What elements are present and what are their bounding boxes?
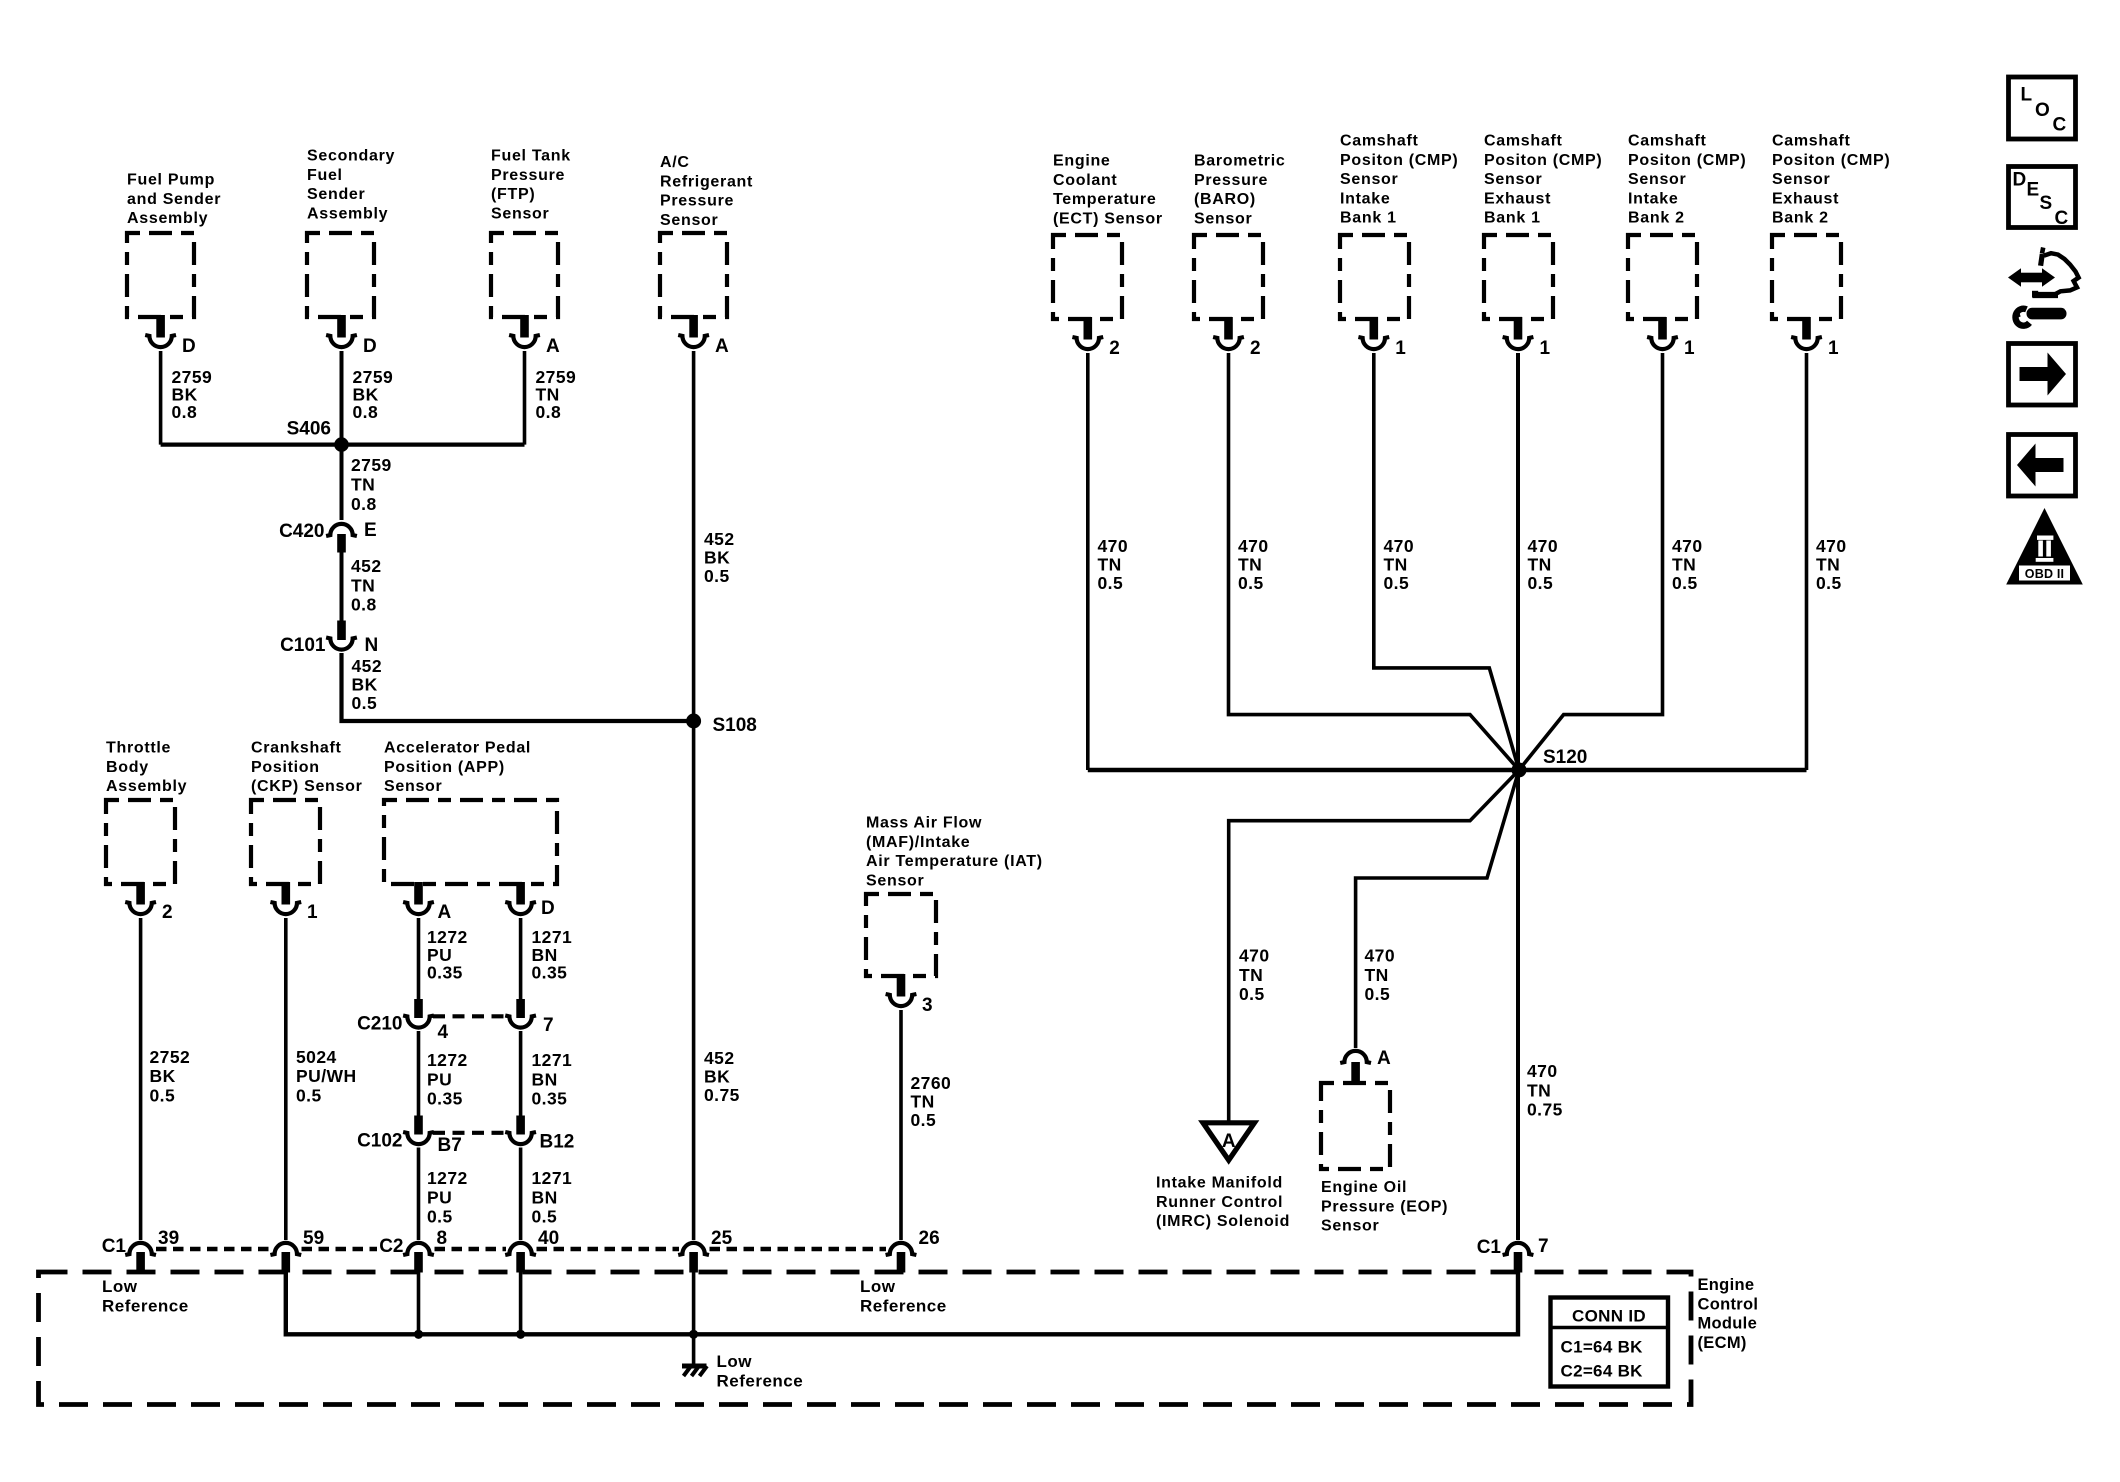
- svg-text:BK: BK: [704, 1067, 730, 1087]
- ECM connector pin 25: [678, 1228, 732, 1273]
- svg-text:C: C: [2055, 208, 2069, 229]
- svg-text:1: 1: [1828, 338, 1839, 359]
- svg-text:1: 1: [1395, 338, 1406, 359]
- svg-text:Intake: Intake: [1628, 190, 1678, 207]
- ECM connector pin 8: [403, 1228, 447, 1273]
- svg-text:A: A: [438, 902, 452, 923]
- svg-text:452: 452: [352, 656, 383, 676]
- junction dot pin 40 bus: [516, 1330, 525, 1339]
- svg-text:0.5: 0.5: [532, 1207, 558, 1227]
- wire 470 TN 0.5 from S120 to EOP Sensor: [1356, 770, 1519, 1048]
- dashed harness line of ECM connectors C1/C2: [156, 1247, 272, 1251]
- svg-text:3: 3: [922, 995, 933, 1016]
- svg-text:Camshaft: Camshaft: [1772, 133, 1851, 150]
- svg-text:0.35: 0.35: [427, 1089, 463, 1109]
- svg-text:Fuel Tank: Fuel Tank: [491, 148, 571, 165]
- svg-text:Accelerator Pedal: Accelerator Pedal: [384, 740, 531, 757]
- connector pin A of FTP Sensor: [509, 315, 560, 357]
- wire 452 BK 0.5 from C101 to S108: [342, 653, 694, 721]
- svg-text:BK: BK: [352, 675, 378, 695]
- in-line connector C420 pin E: [279, 520, 377, 553]
- svg-text:D: D: [363, 336, 377, 357]
- icon LOC box: [2009, 77, 2076, 139]
- in-line connector C102 pin B7: [357, 1116, 462, 1157]
- svg-text:TN: TN: [1238, 555, 1262, 575]
- svg-text:Assembly: Assembly: [127, 210, 208, 227]
- svg-text:470: 470: [1365, 946, 1396, 966]
- svg-text:Sensor: Sensor: [660, 212, 718, 229]
- icon forward arrow box: [2009, 344, 2076, 406]
- component CMP Sensor Exhaust Bank 2: [1772, 133, 1890, 320]
- svg-text:470: 470: [1528, 536, 1559, 556]
- svg-text:2752: 2752: [150, 1047, 191, 1067]
- svg-text:Refrigerant: Refrigerant: [660, 173, 753, 190]
- component Fuel Tank Pressure (FTP) Sensor: [491, 148, 571, 318]
- ECM internal low reference bus wire: [286, 1262, 1518, 1334]
- svg-text:TN: TN: [351, 575, 375, 595]
- svg-text:Assembly: Assembly: [307, 205, 388, 222]
- svg-text:Sensor: Sensor: [1628, 171, 1686, 188]
- svg-text:B7: B7: [438, 1135, 462, 1156]
- svg-text:A: A: [1222, 1131, 1236, 1152]
- svg-text:0.8: 0.8: [536, 402, 562, 422]
- svg-text:470: 470: [1672, 536, 1703, 556]
- component Crankshaft Position (CKP) Sensor: [251, 740, 363, 885]
- svg-text:Intake: Intake: [1340, 190, 1390, 207]
- svg-text:Camshaft: Camshaft: [1628, 133, 1707, 150]
- svg-text:Body: Body: [106, 759, 149, 776]
- svg-text:0.8: 0.8: [351, 595, 377, 615]
- svg-text:Fuel: Fuel: [307, 167, 343, 184]
- svg-text:0.5: 0.5: [704, 566, 730, 586]
- svg-text:Air Temperature (IAT): Air Temperature (IAT): [866, 853, 1043, 870]
- svg-text:5024: 5024: [296, 1047, 337, 1067]
- wire 1271 BN 0.35 from C210 to C102: [521, 1031, 573, 1117]
- wire 1271 BN 0.5 from C102 to ECM pin 40: [521, 1148, 573, 1241]
- wire 2759 BK 0.8 from Fuel Pump pin D to splice S406: [161, 351, 213, 445]
- svg-text:Sensor: Sensor: [866, 872, 924, 889]
- svg-text:C210: C210: [357, 1014, 402, 1035]
- junction dot pin 8 bus: [414, 1330, 423, 1339]
- wire 452 BK 0.75 from S108 to ECM pin 25: [694, 721, 740, 1240]
- svg-text:2: 2: [1250, 338, 1261, 359]
- wire 2760 TN 0.5 from MAF/IAT Sensor to ECM pin 26: [901, 1010, 951, 1240]
- svg-text:Pressure: Pressure: [660, 193, 734, 210]
- in-line connector C101 pin N: [280, 621, 378, 657]
- svg-text:39: 39: [158, 1228, 179, 1249]
- wire 470 TN 0.5 from CMP Exhaust Bank 1 down through splice S120: [1518, 353, 1558, 770]
- svg-text:0.5: 0.5: [911, 1110, 937, 1130]
- svg-text:Camshaft: Camshaft: [1340, 133, 1419, 150]
- svg-text:C1: C1: [1477, 1237, 1502, 1258]
- svg-text:2760: 2760: [911, 1073, 952, 1093]
- svg-text:1: 1: [307, 902, 318, 923]
- svg-text:(ECM): (ECM): [1698, 1334, 1747, 1352]
- connector pin 3 of MAF/IAT Sensor: [886, 974, 933, 1016]
- svg-text:Sensor: Sensor: [1194, 210, 1252, 227]
- svg-text:L: L: [2021, 85, 2033, 106]
- wire 470 TN 0.75 from S120 to ECM pin 7: [1518, 770, 1563, 1240]
- svg-text:0.5: 0.5: [296, 1085, 322, 1105]
- junction dot pin 25 bus: [689, 1330, 698, 1339]
- svg-text:Exhaust: Exhaust: [1484, 190, 1551, 207]
- connector pin 1 of CMP Sensor Exhaust Bank 2: [1791, 317, 1839, 359]
- splice S108: [686, 714, 757, 737]
- component CMP Sensor Intake Bank 1: [1340, 133, 1458, 320]
- svg-text:TN: TN: [1098, 555, 1122, 575]
- connector pin 1 of CMP Sensor Exhaust Bank 1: [1503, 317, 1551, 359]
- connector pin D of Secondary Fuel Sender Assembly: [326, 315, 377, 357]
- connector pin 1 of CMP Sensor Intake Bank 1: [1358, 317, 1406, 359]
- svg-text:Low: Low: [860, 1277, 896, 1296]
- icon vehicle with double arrow and wrench: [2008, 248, 2079, 326]
- connector pin 1 of CKP Sensor: [270, 882, 318, 923]
- ECM connector pin 39: [125, 1228, 179, 1273]
- svg-text:E: E: [364, 520, 377, 541]
- svg-text:0.5: 0.5: [427, 1207, 453, 1227]
- wire 1272 PU 0.35 from C210 to C102: [419, 1031, 468, 1117]
- svg-text:TN: TN: [1527, 1080, 1551, 1100]
- svg-text:Pressure: Pressure: [1194, 172, 1268, 189]
- svg-text:0.5: 0.5: [352, 693, 378, 713]
- component Engine Oil Pressure (EOP) Sensor: [1321, 1048, 1448, 1235]
- component CMP Sensor Exhaust Bank 1: [1484, 133, 1602, 320]
- svg-text:2: 2: [1109, 338, 1120, 359]
- ECM label: [1698, 1276, 1759, 1352]
- wire from ECM pin 40 to internal bus: [519, 1262, 523, 1334]
- svg-text:470: 470: [1238, 536, 1269, 556]
- svg-text:Barometric: Barometric: [1194, 153, 1285, 170]
- svg-text:TN: TN: [1365, 965, 1389, 985]
- wire 452 BK 0.5 from A/C sensor down to splice S108: [694, 351, 735, 721]
- svg-text:Low: Low: [102, 1277, 138, 1296]
- svg-text:Sensor: Sensor: [1340, 171, 1398, 188]
- svg-text:Position (APP): Position (APP): [384, 759, 505, 776]
- svg-text:A: A: [715, 336, 729, 357]
- svg-text:C102: C102: [357, 1131, 402, 1152]
- svg-text:Temperature: Temperature: [1053, 191, 1156, 208]
- svg-text:C420: C420: [279, 521, 324, 542]
- svg-text:470: 470: [1239, 946, 1270, 966]
- svg-text:Assembly: Assembly: [106, 778, 187, 795]
- svg-text:A: A: [546, 336, 560, 357]
- wire 2759 BK 0.8 from Secondary Fuel Sender to splice S406: [342, 351, 394, 445]
- svg-text:C101: C101: [280, 635, 326, 656]
- svg-text:Intake Manifold: Intake Manifold: [1156, 1175, 1283, 1192]
- svg-text:0.35: 0.35: [427, 963, 463, 983]
- svg-text:S120: S120: [1543, 747, 1587, 768]
- svg-text:0.5: 0.5: [1098, 573, 1124, 593]
- svg-text:0.5: 0.5: [1816, 573, 1842, 593]
- ECM connector pin 40: [505, 1228, 559, 1273]
- svg-text:Sensor: Sensor: [1484, 171, 1542, 188]
- svg-text:Sensor: Sensor: [491, 205, 549, 222]
- svg-text:Throttle: Throttle: [106, 740, 171, 757]
- wire 2752 BK 0.5 from Throttle Body to ECM pin 39: [141, 918, 191, 1240]
- ECM internal label Low Reference (pin 39): [102, 1277, 189, 1315]
- svg-text:0.5: 0.5: [1239, 984, 1265, 1004]
- wire 470 TN 0.5 from BARO Sensor to splice S120: [1229, 353, 1520, 770]
- svg-text:Reference: Reference: [717, 1371, 804, 1390]
- svg-text:(FTP): (FTP): [491, 186, 535, 203]
- icon OBD II triangle: [2006, 508, 2083, 585]
- svg-text:7: 7: [1538, 1236, 1549, 1257]
- svg-text:Bank 2: Bank 2: [1772, 210, 1829, 227]
- icon DESC box: [2009, 167, 2076, 230]
- svg-text:452: 452: [704, 1048, 735, 1068]
- svg-text:C: C: [2053, 115, 2067, 136]
- in-line connector C210 pin 7: [505, 999, 553, 1036]
- Engine Control Module (ECM) dashed box: [39, 1272, 1692, 1405]
- svg-text:OBD II: OBD II: [2025, 567, 2064, 581]
- svg-text:0.8: 0.8: [351, 494, 377, 514]
- svg-text:0.8: 0.8: [172, 402, 198, 422]
- svg-text:PU: PU: [427, 1069, 452, 1089]
- svg-text:Pressure: Pressure: [491, 167, 565, 184]
- svg-text:A/C: A/C: [660, 154, 690, 171]
- horizontal bus wire into splice S120: [1088, 768, 1807, 772]
- svg-text:BN: BN: [532, 1187, 558, 1207]
- svg-text:BK: BK: [150, 1066, 176, 1086]
- svg-text:Engine: Engine: [1053, 153, 1111, 170]
- svg-text:B12: B12: [540, 1132, 575, 1153]
- svg-text:S: S: [2040, 193, 2053, 214]
- svg-text:1: 1: [1540, 338, 1551, 359]
- connector pin 2 of Throttle Body Assembly: [125, 882, 172, 923]
- svg-text:0.35: 0.35: [532, 1089, 568, 1109]
- dashed harness line of connector C210: [433, 1014, 507, 1018]
- svg-text:452: 452: [704, 529, 735, 549]
- svg-text:Reference: Reference: [102, 1296, 189, 1315]
- svg-text:0.5: 0.5: [1238, 573, 1264, 593]
- svg-text:(CKP) Sensor: (CKP) Sensor: [251, 778, 363, 795]
- wire 1272 PU 0.35 from APP pin A to C210 pin 4: [419, 918, 468, 1000]
- svg-text:1272: 1272: [427, 1168, 468, 1188]
- svg-text:7: 7: [543, 1015, 554, 1036]
- svg-text:0.75: 0.75: [704, 1085, 740, 1105]
- svg-text:0.75: 0.75: [1527, 1100, 1563, 1120]
- svg-text:C1: C1: [102, 1236, 127, 1257]
- connector pin 1 of CMP Sensor Intake Bank 2: [1647, 317, 1695, 359]
- wire 2759 TN 0.8 from S406 to C420: [342, 445, 392, 520]
- svg-text:Secondary: Secondary: [307, 148, 395, 165]
- svg-text:(BARO): (BARO): [1194, 191, 1256, 208]
- svg-text:TN: TN: [1528, 555, 1552, 575]
- svg-text:0.5: 0.5: [1365, 984, 1391, 1004]
- CONN ID table: [1551, 1298, 1669, 1387]
- ECM connector pin 7: [1503, 1236, 1549, 1273]
- svg-text:470: 470: [1384, 536, 1415, 556]
- component Mass Air Flow (MAF)/Intake Air Temperature (IAT) Sensor: [866, 815, 1043, 977]
- svg-text:Crankshaft: Crankshaft: [251, 740, 342, 757]
- in-line connector C210 pin 4: [357, 999, 448, 1043]
- connector pin 2 of BARO Sensor: [1213, 317, 1260, 359]
- svg-text:C2=64 BK: C2=64 BK: [1561, 1362, 1644, 1381]
- ECM internal label Low Reference (pin 26): [860, 1277, 947, 1315]
- svg-text:470: 470: [1098, 536, 1129, 556]
- svg-text:O: O: [2035, 100, 2050, 121]
- svg-text:Pressure (EOP): Pressure (EOP): [1321, 1198, 1448, 1215]
- svg-text:0.5: 0.5: [150, 1085, 176, 1105]
- svg-text:1272: 1272: [427, 1050, 468, 1070]
- svg-text:Sender: Sender: [307, 186, 365, 203]
- svg-text:D: D: [2013, 170, 2027, 191]
- svg-text:TN: TN: [1816, 555, 1840, 575]
- connector pin 2 of ECT Sensor: [1072, 317, 1119, 359]
- component BARO Sensor: [1194, 153, 1285, 320]
- component ECT Sensor: [1053, 153, 1163, 320]
- svg-text:N: N: [365, 635, 379, 656]
- ECM connector pin 26: [886, 1228, 940, 1273]
- svg-text:0.8: 0.8: [353, 402, 379, 422]
- device Intake Manifold Runner Control (IMRC) Solenoid (triangle with A): [1156, 1123, 1290, 1230]
- svg-text:0.5: 0.5: [1384, 573, 1410, 593]
- svg-text:2759: 2759: [351, 455, 392, 475]
- svg-text:Positon (CMP): Positon (CMP): [1484, 152, 1602, 169]
- svg-text:0.5: 0.5: [1672, 573, 1698, 593]
- connector pin D of APP Sensor: [505, 882, 555, 919]
- component Throttle Body Assembly: [106, 740, 187, 885]
- svg-text:A: A: [1377, 1048, 1391, 1069]
- svg-text:C2: C2: [379, 1236, 403, 1257]
- svg-text:TN: TN: [1384, 555, 1408, 575]
- svg-text:E: E: [2027, 180, 2040, 201]
- in-line connector C102 pin B12: [505, 1116, 574, 1153]
- svg-text:26: 26: [919, 1228, 940, 1249]
- svg-text:Positon (CMP): Positon (CMP): [1628, 152, 1746, 169]
- connector pin A of A/C Refrigerant Pressure Sensor: [678, 315, 729, 357]
- wire 1271 BN 0.35 from APP pin D to C210 pin 7: [521, 918, 573, 1000]
- wire 452 TN 0.8 from C420 to C101: [342, 550, 382, 621]
- dashed harness line of connector C102: [433, 1131, 507, 1135]
- icon back arrow box: [2009, 435, 2076, 497]
- svg-text:Sensor: Sensor: [1321, 1218, 1379, 1235]
- component Fuel Pump and Sender Assembly (dashed box + label): [127, 172, 221, 318]
- svg-text:Positon (CMP): Positon (CMP): [1772, 152, 1890, 169]
- connector pin A of APP Sensor: [403, 882, 451, 923]
- wire 470 TN 0.5 from ECT Sensor to splice S120: [1088, 353, 1128, 770]
- svg-text:TN: TN: [1239, 965, 1263, 985]
- svg-text:Sensor: Sensor: [1772, 171, 1830, 188]
- svg-text:BK: BK: [704, 548, 730, 568]
- svg-text:Low: Low: [717, 1352, 753, 1371]
- svg-text:59: 59: [303, 1228, 324, 1249]
- svg-text:2: 2: [162, 902, 173, 923]
- svg-text:Mass Air Flow: Mass Air Flow: [866, 815, 982, 832]
- svg-text:S406: S406: [287, 419, 331, 440]
- svg-text:470: 470: [1527, 1061, 1558, 1081]
- svg-text:1271: 1271: [532, 1168, 573, 1188]
- svg-text:(IMRC) Solenoid: (IMRC) Solenoid: [1156, 1213, 1290, 1230]
- component Accelerator Pedal Position (APP) Sensor: [384, 740, 557, 885]
- wire from ECM pin 8 to internal bus: [417, 1262, 421, 1334]
- svg-text:Exhaust: Exhaust: [1772, 190, 1839, 207]
- svg-text:Positon (CMP): Positon (CMP): [1340, 152, 1458, 169]
- wire 470 TN 0.5 from S120 to IMRC Solenoid: [1229, 770, 1519, 1121]
- svg-text:Sensor: Sensor: [384, 778, 442, 795]
- svg-text:Bank 1: Bank 1: [1340, 210, 1397, 227]
- svg-text:Reference: Reference: [860, 1296, 947, 1315]
- svg-text:(ECT) Sensor: (ECT) Sensor: [1053, 210, 1163, 227]
- svg-text:Runner Control: Runner Control: [1156, 1194, 1283, 1211]
- splice S120: [1512, 747, 1588, 778]
- svg-text:470: 470: [1816, 536, 1847, 556]
- svg-text:40: 40: [538, 1228, 559, 1249]
- ECM connector pin 59: [270, 1228, 324, 1273]
- svg-text:D: D: [541, 898, 555, 919]
- svg-text:Engine Oil: Engine Oil: [1321, 1179, 1407, 1196]
- svg-text:(MAF)/Intake: (MAF)/Intake: [866, 834, 970, 851]
- svg-text:S108: S108: [713, 715, 757, 736]
- svg-text:Bank 1: Bank 1: [1484, 210, 1541, 227]
- ground symbol Low Reference inside ECM: [682, 1352, 803, 1390]
- wire 470 TN 0.5 from CMP Exhaust Bank 2 to splice S120: [1807, 353, 1847, 770]
- svg-text:4: 4: [438, 1022, 449, 1043]
- svg-text:D: D: [182, 336, 196, 357]
- splice S406: [161, 419, 525, 452]
- svg-text:Position: Position: [251, 759, 320, 776]
- component A/C Refrigerant Pressure Sensor: [660, 154, 753, 317]
- component Secondary Fuel Sender Assembly: [307, 148, 395, 318]
- svg-text:TN: TN: [1672, 555, 1696, 575]
- svg-text:Camshaft: Camshaft: [1484, 133, 1563, 150]
- svg-text:452: 452: [351, 556, 382, 576]
- wire 5024 PU/WH 0.5 from CKP Sensor to ECM pin 59: [286, 918, 357, 1240]
- wire 470 TN 0.5 from CMP Intake Bank 1 to splice S120: [1374, 353, 1519, 770]
- wire 1272 PU 0.5 from C102 to ECM pin 8: [419, 1148, 468, 1241]
- svg-text:and Sender: and Sender: [127, 191, 221, 208]
- svg-text:Module: Module: [1698, 1315, 1758, 1333]
- wire from ECM pin 25 to internal ground: [692, 1262, 696, 1365]
- svg-text:Coolant: Coolant: [1053, 172, 1117, 189]
- svg-text:Fuel Pump: Fuel Pump: [127, 172, 215, 189]
- svg-text:0.35: 0.35: [532, 963, 568, 983]
- component CMP Sensor Intake Bank 2: [1628, 133, 1746, 320]
- svg-text:PU: PU: [427, 1187, 452, 1207]
- svg-text:TN: TN: [911, 1092, 935, 1112]
- svg-text:8: 8: [437, 1228, 448, 1249]
- svg-text:TN: TN: [351, 474, 375, 494]
- svg-text:PU/WH: PU/WH: [296, 1066, 357, 1086]
- svg-text:25: 25: [711, 1228, 733, 1249]
- svg-text:1: 1: [1684, 338, 1695, 359]
- svg-text:1271: 1271: [532, 1050, 573, 1070]
- svg-text:Control: Control: [1698, 1295, 1759, 1313]
- connector pin D of Fuel Pump and Sender Assembly: [145, 315, 196, 357]
- svg-text:Bank 2: Bank 2: [1628, 210, 1685, 227]
- wire 2759 TN 0.8 from FTP Sensor to splice S406: [525, 351, 577, 445]
- svg-text:Engine: Engine: [1698, 1276, 1755, 1294]
- svg-text:C1=64 BK: C1=64 BK: [1561, 1338, 1644, 1357]
- svg-text:0.5: 0.5: [1528, 573, 1554, 593]
- svg-text:CONN ID: CONN ID: [1572, 1307, 1646, 1326]
- svg-text:BN: BN: [532, 1069, 558, 1089]
- wire 470 TN 0.5 from CMP Intake Bank 2 to splice S120: [1519, 353, 1703, 770]
